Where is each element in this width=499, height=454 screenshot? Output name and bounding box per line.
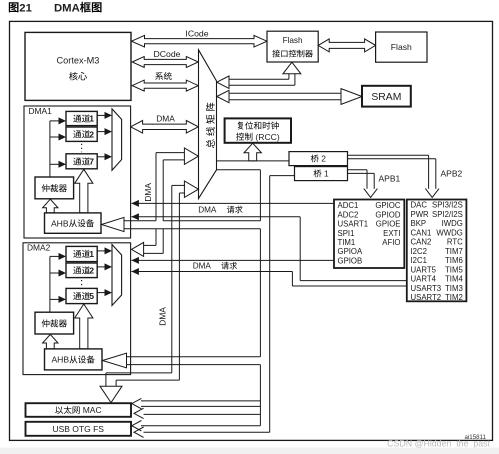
bus DMA arrow (DMA1-matrix)	[131, 121, 199, 134]
svg-text:TIM2: TIM2	[445, 293, 463, 302]
wire dma-request-2 bottom line	[131, 268, 139, 275]
bus head into matrix (lower)	[184, 181, 198, 197]
svg-text:UART4: UART4	[411, 275, 437, 284]
bus APB1 down-chevron	[364, 189, 378, 198]
bus chevron into ethernet (2)	[134, 408, 144, 418]
svg-text:DCode: DCode	[153, 49, 180, 59]
bus chevron into usb (2)	[134, 427, 144, 437]
wire ch1 out	[97, 114, 105, 116]
wire usb bus2 rail	[144, 431, 270, 433]
svg-text:DMA: DMA	[156, 113, 175, 123]
bus funnel2 arrow rails	[144, 244, 156, 246]
svg-text:1: 1	[89, 114, 94, 124]
bus ahb-slave to arbiter up-arrow	[43, 199, 58, 213]
dma1 channel1 box	[66, 111, 97, 125]
svg-text:ADC2: ADC2	[338, 210, 359, 219]
dma2 arbiter 仲裁器 box	[35, 312, 74, 334]
label 系统	[155, 72, 163, 80]
bus head into matrix (dma1 master)	[184, 148, 198, 164]
svg-text:ICode: ICode	[185, 29, 208, 39]
svg-text:TIM1: TIM1	[338, 238, 356, 247]
svg-text:AHB: AHB	[51, 218, 69, 228]
wire bridge1 vertical to usb	[269, 176, 271, 433]
bus head into dma1 ahb-slave	[102, 217, 125, 231]
wire feed dma2-ch1	[50, 255, 59, 257]
svg-text:SPI2/I2S: SPI2/I2S	[432, 210, 463, 219]
svg-text:USART1: USART1	[338, 220, 369, 229]
wire ch7 out	[97, 156, 105, 158]
wire dma-request-2 top line	[131, 257, 139, 264]
bus vertical rails to ethernet	[171, 185, 173, 373]
dma1 channel2 box	[66, 127, 97, 141]
svg-text:DMA: DMA	[193, 262, 212, 271]
bus flash-if to flash arrow	[318, 39, 375, 52]
svg-text:DMA2: DMA2	[27, 243, 51, 253]
svg-text:(RCC): (RCC)	[255, 132, 279, 142]
dma1 channels dotted ellipsis	[81, 144, 83, 153]
bus chevron into ethernet (1)	[132, 398, 142, 408]
bus matrix to SRAM (head at matrix)	[217, 90, 229, 102]
title 图21 DMA框图	[9, 2, 19, 12]
svg-text:ADC1: ADC1	[338, 201, 359, 210]
svg-text:EXTI: EXTI	[383, 229, 400, 238]
bridge 桥1 box	[295, 167, 348, 181]
svg-text:AHB: AHB	[51, 355, 69, 365]
svg-text:DMA: DMA	[157, 307, 167, 326]
svg-text:1: 1	[89, 249, 94, 259]
wire dma2-ch1 out	[97, 250, 105, 252]
dma1 AHB slave box	[45, 213, 102, 233]
wire dma1 ahb bus rail top	[124, 220, 156, 222]
wire dma1 ahb bus rail bottom	[124, 228, 260, 230]
bus APB2 down-chevron	[425, 189, 439, 198]
peripherals APB1 group box (DAC..TIM2)	[407, 200, 467, 302]
dma2 outer box	[23, 243, 131, 375]
bus down-head into ethernet	[100, 386, 122, 402]
bus head into SRAM	[341, 89, 362, 105]
peripherals APB2 group box (ADC1..GPIOB)	[334, 200, 404, 269]
bus dma1-master vertical rails	[155, 153, 157, 221]
dma2 channel5 box	[66, 288, 97, 303]
svg-text:GPIOB: GPIOB	[338, 256, 363, 265]
label DMA vertical (dma2 bus)	[157, 307, 167, 326]
wire eth bus2 rail	[144, 413, 261, 415]
svg-text:Flash: Flash	[283, 36, 303, 45]
svg-text:DMA1: DMA1	[29, 106, 53, 116]
svg-text:USART2: USART2	[411, 293, 442, 302]
svg-text:APB1: APB1	[379, 174, 401, 184]
wire ch2 out	[97, 131, 105, 133]
rcc 复位和时钟控制 box	[225, 118, 291, 142]
svg-text:DAC: DAC	[411, 201, 428, 210]
dma2 funnel	[112, 245, 122, 306]
bus up-arrow into flash-if	[283, 62, 301, 74]
wire feed ch1	[50, 120, 59, 122]
label 总线矩阵 (vertical)	[206, 103, 215, 148]
wire feed ch7	[50, 163, 59, 165]
svg-text:2: 2	[89, 266, 94, 276]
svg-text:5: 5	[89, 291, 94, 301]
wire trunk vertical lower	[259, 365, 261, 426]
svg-text:TIM3: TIM3	[445, 284, 463, 293]
dma2 AHB slave box	[45, 349, 103, 370]
wire dma-request-1 top line	[131, 200, 139, 207]
dma2 channels dotted ellipsis	[81, 280, 83, 287]
dma1 arbiter feed trunk	[49, 121, 51, 177]
svg-text:21: 21	[19, 2, 32, 14]
bus down-rails into ethernet	[106, 372, 172, 374]
svg-text:I2C2: I2C2	[411, 247, 427, 256]
wire dma2-ch2 out	[97, 266, 105, 268]
flash interface controller box	[267, 31, 318, 62]
wire flash-if bus rails	[229, 78, 289, 80]
svg-text:SPI1: SPI1	[338, 229, 355, 238]
bus ahb-slave to channel7 up-arrow	[75, 169, 93, 213]
bus DCode arrow	[132, 57, 198, 68]
cpu Cortex-M3 core	[25, 32, 131, 100]
svg-text:UART5: UART5	[411, 265, 437, 274]
bus System arrow	[132, 80, 198, 91]
bus funnel2 arrow vert stubs	[155, 229, 157, 246]
svg-text:2: 2	[89, 129, 94, 139]
bus up-arrow into RCC	[244, 143, 261, 161]
dma2 channel1 box	[66, 246, 97, 261]
svg-text:IWDG: IWDG	[442, 219, 463, 228]
svg-text:TIM4: TIM4	[445, 275, 463, 284]
svg-text:CAN1: CAN1	[411, 228, 432, 237]
wire SRAM bus rails	[229, 92, 341, 94]
svg-text:PWR: PWR	[411, 210, 430, 219]
svg-text:APB2: APB2	[441, 169, 463, 179]
svg-text:USART3: USART3	[411, 284, 442, 293]
svg-text:TIM5: TIM5	[445, 265, 463, 274]
bus ICode arrow	[132, 35, 268, 47]
svg-text:AFIO: AFIO	[382, 238, 400, 247]
bus matrix-head2 stub rails	[172, 184, 185, 186]
dma2 arbiter feed trunk	[49, 256, 51, 312]
svg-text:WWDG: WWDG	[436, 228, 462, 237]
wire feed dma2-ch5	[50, 298, 59, 300]
bus matrix polygon	[199, 50, 217, 199]
svg-text:CAN2: CAN2	[411, 238, 432, 247]
svg-text:7: 7	[89, 157, 94, 167]
flash memory box	[376, 32, 427, 62]
svg-text:DMA: DMA	[143, 183, 153, 202]
svg-text:TIM7: TIM7	[445, 247, 463, 256]
wire feed ch2	[50, 136, 59, 138]
svg-text:GPIOD: GPIOD	[375, 210, 400, 219]
wire matrix to bridge2	[217, 160, 290, 162]
wire trunk vertical middle	[259, 229, 261, 357]
wire usb bus1 rail	[141, 425, 260, 427]
wire eth bus1 rails	[141, 400, 260, 402]
dma1 funnel	[112, 109, 122, 170]
dma1 arbiter 仲裁器 box	[35, 177, 74, 199]
dma2 channel2 box	[66, 263, 97, 278]
svg-text:GPIOA: GPIOA	[338, 247, 363, 256]
wire dma2-ch5 out	[97, 292, 105, 294]
svg-text:SRAM: SRAM	[371, 92, 401, 103]
wire matrix slant-corner to trunk	[217, 169, 261, 171]
svg-text:MAC: MAC	[83, 405, 102, 415]
svg-text:CSDN @Hidden_the_past: CSDN @Hidden_the_past	[387, 439, 490, 449]
bus chevron into usb (1)	[132, 421, 142, 431]
bus ahb-slave to channel5 up-arrow	[75, 304, 93, 349]
svg-text:USB OTG FS: USB OTG FS	[52, 424, 104, 434]
svg-text:GPIOE: GPIOE	[376, 220, 401, 229]
wire bridge1 stub	[270, 175, 295, 177]
bridge 桥2 box	[289, 152, 348, 166]
svg-text:GPIOC: GPIOC	[375, 201, 400, 210]
wire dma-request-1 bottom line	[131, 213, 139, 220]
memory SRAM box	[362, 86, 411, 107]
svg-text:BKP: BKP	[411, 219, 427, 228]
bus ahb-slave to arbiter2 up-arrow	[43, 334, 58, 349]
ethernet 以太网 MAC box	[26, 403, 132, 417]
wire bridge1 to APB1 rails	[348, 169, 368, 171]
svg-text:Flash: Flash	[391, 42, 412, 52]
svg-text:DMA: DMA	[54, 2, 80, 14]
bus dma1-master top rails	[156, 152, 185, 154]
svg-text:SPI3/I2S: SPI3/I2S	[432, 201, 463, 210]
svg-text:TIM6: TIM6	[445, 256, 463, 265]
label DMA vertical (dma1 master bus)	[143, 183, 153, 202]
svg-text:I2C1: I2C1	[411, 256, 427, 265]
bus head into dma2 ahb-slave	[103, 353, 127, 368]
dma1 outer box	[24, 106, 131, 238]
bus head into dma2 funnel	[131, 242, 143, 256]
svg-text:DMA: DMA	[198, 206, 217, 215]
wire dma2 ahb bus rails	[127, 356, 260, 358]
footer strip	[0, 448, 499, 454]
svg-text:1: 1	[324, 169, 329, 179]
wire trunk vertical upper	[259, 170, 261, 221]
dma1 channel7 box	[66, 154, 97, 169]
bus matrix to flash-if (head at matrix)	[217, 76, 229, 88]
wire feed dma2-ch2	[50, 272, 59, 274]
svg-text:Cortex-M3: Cortex-M3	[57, 56, 100, 66]
svg-text:2: 2	[321, 154, 326, 164]
svg-text:RTC: RTC	[447, 238, 463, 247]
usb USB OTG FS box	[26, 422, 132, 436]
wire bridge2 to APB2 rails	[348, 154, 429, 156]
